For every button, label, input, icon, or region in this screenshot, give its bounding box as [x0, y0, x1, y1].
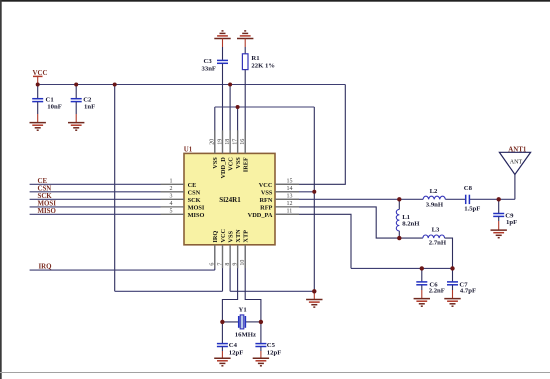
svg-text:Si24R1: Si24R1 [219, 196, 241, 204]
svg-text:1pF: 1pF [506, 219, 517, 226]
junction node antenna [497, 197, 501, 201]
svg-text:4: 4 [170, 201, 173, 207]
svg-text:14: 14 [287, 186, 293, 192]
ground under C9 [491, 230, 507, 238]
wire VDD_PA net [275, 214, 351, 268]
svg-text:7: 7 [217, 263, 223, 266]
capacitor C7 [447, 268, 476, 298]
junction node crystal right [259, 320, 263, 324]
svg-text:VSS: VSS [261, 189, 273, 196]
svg-text:C4: C4 [229, 342, 238, 349]
svg-text:Y1: Y1 [239, 306, 247, 313]
junction node C6 [420, 266, 424, 270]
pin 18 VCC top [229, 130, 231, 153]
pin 11 VDD_PA [275, 213, 299, 215]
ground under C6 [414, 299, 430, 307]
wire VCC rail drop to pin 15 [275, 85, 345, 185]
capacitor C1 [32, 85, 62, 123]
svg-text:12: 12 [287, 201, 293, 207]
svg-text:10nF: 10nF [47, 104, 62, 111]
antenna ANT1 [499, 146, 530, 199]
svg-text:17: 17 [232, 139, 238, 145]
pin 20 VSS top [214, 130, 216, 153]
svg-text:12pF: 12pF [267, 350, 282, 357]
pin 16 IREF top [244, 130, 246, 153]
ground at VSS node [306, 291, 322, 307]
svg-text:MISO: MISO [188, 212, 205, 219]
wire L3 to VDD_PA node [445, 238, 453, 268]
pin 5 MISO [161, 213, 185, 215]
junction node pin14 VSS [312, 190, 316, 194]
wire vertical VCC feed x=115 [114, 85, 116, 292]
svg-text:12pF: 12pF [229, 350, 244, 357]
svg-text:1: 1 [170, 179, 173, 185]
pin 17 VSS top [237, 130, 239, 153]
junction node pin18 rail [228, 83, 232, 87]
svg-text:2.2nF: 2.2nF [429, 288, 445, 295]
svg-text:VSS: VSS [235, 157, 242, 169]
pin 3 SCK [161, 198, 185, 200]
svg-text:8.2nH: 8.2nH [402, 221, 420, 228]
wire IRQ [30, 269, 215, 271]
svg-text:SCK: SCK [188, 197, 201, 204]
svg-text:IRQ: IRQ [212, 231, 219, 243]
crystal Y1 [222, 306, 261, 338]
svg-text:33nF: 33nF [202, 66, 217, 73]
pin 6 IRQ bottom [214, 245, 216, 268]
svg-text:XTN: XTN [235, 229, 242, 243]
svg-text:13: 13 [287, 194, 293, 200]
svg-text:1.5pF: 1.5pF [464, 206, 480, 213]
wire pin7 vertical [222, 245, 224, 291]
svg-text:4.7pF: 4.7pF [460, 288, 476, 295]
svg-text:15: 15 [287, 179, 293, 185]
wire CSN [30, 191, 161, 193]
pin 14 VSS [275, 191, 299, 193]
svg-text:VSS: VSS [228, 231, 235, 243]
wire RFP net [275, 207, 423, 238]
wire MISO [30, 213, 161, 215]
svg-text:20: 20 [210, 139, 216, 145]
svg-text:2.7nH: 2.7nH [429, 240, 447, 247]
ground under C4 [214, 358, 230, 366]
junction node C7 [450, 266, 454, 270]
junction node pin17 VSS [236, 105, 240, 109]
svg-text:VDD_D: VDD_D [220, 157, 227, 179]
wire VCC rail [38, 84, 346, 86]
IC U1 Si24R1 body [184, 153, 275, 244]
svg-text:C1: C1 [46, 96, 54, 103]
svg-text:18: 18 [225, 139, 231, 145]
junction node L1 bottom [397, 236, 401, 240]
pin 8 VSS bottom [229, 245, 231, 268]
svg-text:3.9nH: 3.9nH [426, 202, 444, 209]
pin 15 VCC [275, 183, 299, 185]
wire pin 14 to VSS vertical [275, 191, 314, 193]
svg-text:8: 8 [225, 263, 231, 266]
wire SCK [30, 198, 161, 200]
svg-text:VSS: VSS [212, 157, 219, 169]
wire pin 18 to VCC rail [229, 85, 231, 154]
svg-text:C2: C2 [83, 96, 92, 103]
svg-text:9: 9 [232, 263, 238, 266]
svg-text:SCK: SCK [38, 193, 53, 200]
wire pin 9 to crystal left [222, 245, 237, 322]
capacitor C2 [71, 85, 95, 123]
junction node crystal left [220, 320, 224, 324]
capacitor C3 [202, 39, 229, 73]
resistor R1 [242, 39, 275, 70]
svg-text:VCC: VCC [33, 70, 48, 77]
svg-text:3: 3 [170, 194, 173, 200]
pin 4 MOSI [161, 206, 185, 208]
svg-text:RFP: RFP [260, 204, 272, 211]
svg-text:C5: C5 [267, 342, 276, 349]
wire RFN net [275, 198, 423, 200]
wire R1 to pin 16 [244, 70, 246, 154]
ground under C7 [444, 299, 460, 307]
svg-text:ANT1: ANT1 [508, 146, 527, 153]
svg-text:ANT: ANT [510, 160, 523, 166]
junction node x115 [113, 83, 117, 87]
capacitor C8 [464, 185, 481, 212]
svg-text:5: 5 [170, 209, 173, 215]
capacitor C6 [416, 268, 445, 298]
svg-text:1nF: 1nF [84, 104, 95, 111]
capacitor C5 [255, 322, 281, 358]
ground under C5 [253, 358, 269, 366]
wire C3 to pin 19 [222, 64, 224, 154]
pin 9 XTN bottom [237, 245, 239, 268]
ground flipped above C3 [214, 31, 230, 39]
capacitor C9 [493, 199, 517, 230]
svg-text:2: 2 [170, 186, 173, 192]
wire VCC to pin7 [115, 290, 223, 292]
svg-text:MOSI: MOSI [38, 200, 57, 207]
wire pin 8 to ground [229, 245, 231, 291]
wire pin 17 to VSS net [237, 107, 239, 153]
svg-text:16MHz: 16MHz [235, 331, 256, 338]
svg-text:VCC: VCC [259, 182, 273, 189]
svg-text:L2: L2 [430, 188, 438, 195]
svg-text:C3: C3 [204, 58, 213, 65]
wire VSS top net: pin20 up, across, down to ground [214, 107, 216, 153]
svg-text:22K 1%: 22K 1% [251, 62, 275, 69]
inductor L3 [423, 226, 447, 246]
svg-text:19: 19 [217, 139, 223, 145]
svg-text:XTP: XTP [243, 230, 250, 243]
pin 12 RFP [275, 206, 299, 208]
junction node L1 top [397, 197, 401, 201]
ground under C2 [68, 123, 84, 131]
svg-text:10: 10 [240, 260, 246, 266]
svg-text:6: 6 [210, 263, 216, 266]
svg-text:U1: U1 [184, 147, 193, 154]
wire CE [30, 183, 161, 185]
pin 10 XTP bottom [244, 245, 246, 268]
svg-text:C8: C8 [464, 185, 473, 192]
svg-text:VCC: VCC [220, 229, 227, 243]
wire pin 10 to crystal right [245, 245, 261, 322]
pin 7 VCC bottom [222, 245, 224, 268]
pin 13 RFN [275, 198, 299, 200]
svg-text:MOSI: MOSI [188, 204, 205, 211]
svg-text:CE: CE [38, 178, 48, 185]
svg-text:IREF: IREF [243, 157, 250, 172]
svg-text:CE: CE [188, 182, 197, 189]
pin 1 CE [161, 183, 185, 185]
junction node ground VSS [312, 289, 316, 293]
inductor L1 [396, 199, 420, 238]
svg-text:CSN: CSN [38, 185, 52, 192]
svg-text:16: 16 [240, 139, 246, 145]
power VCC symbol [33, 70, 48, 84]
pin 19 VDD_D top [222, 130, 224, 153]
junction node VCC/C1 [36, 83, 40, 87]
capacitor C4 [217, 322, 243, 358]
svg-text:11: 11 [287, 209, 293, 215]
ground flipped above R1 [237, 31, 253, 39]
ground under C1 [30, 123, 46, 131]
svg-text:L3: L3 [432, 226, 440, 233]
svg-text:MISO: MISO [38, 208, 57, 215]
junction node C2 [74, 83, 78, 87]
svg-text:R1: R1 [251, 55, 259, 62]
svg-text:VCC: VCC [228, 157, 235, 171]
wire MOSI [30, 206, 161, 208]
svg-text:IRQ: IRQ [39, 264, 53, 271]
inductor L2 [423, 188, 445, 209]
svg-text:CSN: CSN [188, 189, 201, 196]
svg-text:VDD_PA: VDD_PA [248, 212, 273, 219]
svg-text:RFN: RFN [259, 197, 272, 204]
pin 2 CSN [161, 191, 185, 193]
